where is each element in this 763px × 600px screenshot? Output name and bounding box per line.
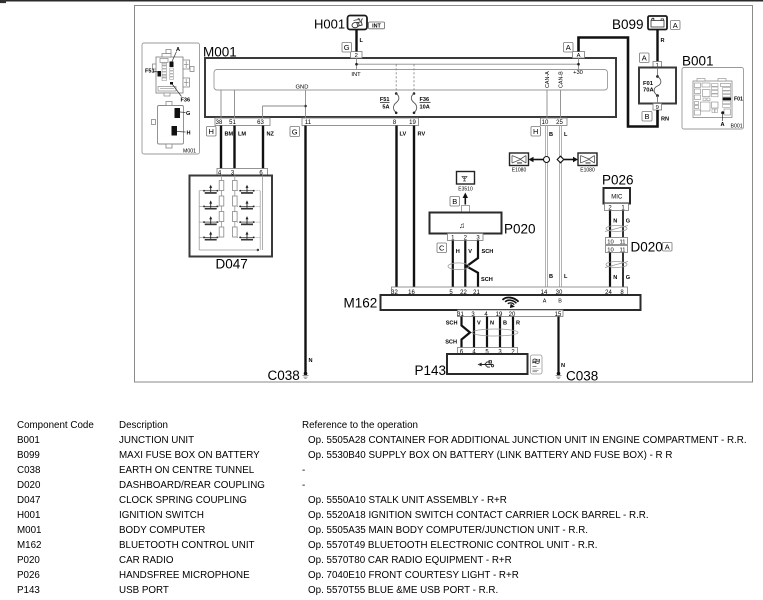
svg-text:H001: H001 <box>314 17 345 32</box>
svg-text:B001: B001 <box>731 124 743 130</box>
svg-text:B: B <box>644 112 649 121</box>
svg-text:E1080: E1080 <box>580 168 595 174</box>
earth C038 (right) <box>556 369 599 384</box>
svg-text:25: 25 <box>556 120 563 126</box>
wire V (M162 pin 3 to P143 pin 4) <box>474 317 481 348</box>
svg-text:LM: LM <box>238 132 246 138</box>
connector A label box (D020) <box>663 243 673 252</box>
svg-text:L: L <box>360 38 364 44</box>
svg-text:A: A <box>721 122 725 128</box>
wire B CAN (M001 pin 10 to M162 pin 14) <box>546 126 554 288</box>
svg-text:70A: 70A <box>643 88 654 94</box>
wire V (P020 pin 2 to M162 pin 22) <box>465 241 472 288</box>
svg-text:P143: P143 <box>415 363 447 378</box>
svg-text:A: A <box>543 299 547 305</box>
svg-text:N: N <box>490 321 494 327</box>
svg-text:B: B <box>452 197 457 206</box>
svg-text:11: 11 <box>619 240 625 246</box>
USB port P143 box <box>447 354 528 374</box>
svg-text:H: H <box>456 249 460 255</box>
earth C038 (left) <box>268 368 309 383</box>
clock spring D047 pin strip 4/3/6 <box>217 169 268 177</box>
svg-text:38: 38 <box>216 120 223 126</box>
M162 bottom pin strip <box>457 310 563 318</box>
svg-text:B099: B099 <box>612 17 644 32</box>
M001 pin strip 11/8/19 <box>302 118 419 126</box>
Blue&Me logo tag <box>531 355 543 374</box>
svg-text:MIC: MIC <box>611 195 623 201</box>
body computer M001 box <box>205 58 616 117</box>
svg-text:SCH: SCH <box>445 340 457 346</box>
fuse F36 10A <box>411 92 430 114</box>
bluetooth control unit M162 box <box>381 295 641 310</box>
ignition switch H001 icon <box>348 16 368 30</box>
svg-text:INT: INT <box>372 24 381 30</box>
svg-text:C038: C038 <box>268 368 300 383</box>
svg-text:G: G <box>186 111 190 117</box>
net INT/+30 bus wire <box>355 58 580 70</box>
wire LM (pin 51 to D047 pin 3) <box>235 126 247 169</box>
wire R (M162 pin 20 to P143 pin 2) <box>513 317 520 348</box>
wire GND from pin 38 <box>220 90 222 119</box>
INT tag box <box>369 22 385 30</box>
D047 internals <box>199 176 262 251</box>
pin 1 (fuse box) <box>653 62 662 69</box>
twisted pair symbol (lower) <box>605 262 628 268</box>
svg-text:A: A <box>642 54 647 63</box>
svg-text:H: H <box>187 131 191 137</box>
connector A label box (B099) <box>671 21 681 30</box>
svg-text:D020: D020 <box>631 240 663 255</box>
svg-text:A: A <box>566 43 571 52</box>
svg-text:F36: F36 <box>181 98 191 104</box>
splice node on wire L <box>557 156 564 163</box>
svg-text:63: 63 <box>257 120 264 126</box>
wire G (P026 pin 1 to D020) <box>623 211 630 238</box>
M001 pin strip 10/25 <box>541 118 568 126</box>
svg-text:INT: INT <box>351 72 361 78</box>
fuse F51 feed (dashed) <box>395 64 397 93</box>
svg-text:11: 11 <box>305 120 312 126</box>
inset M001 connector detail box <box>142 43 200 154</box>
connector A label box (M001 pin A) <box>564 43 574 53</box>
wire NZ (pin 63 to D047 pin 6) <box>263 126 275 169</box>
svg-text:N: N <box>613 219 617 225</box>
svg-text:P020: P020 <box>504 222 536 237</box>
connector G label box <box>290 127 300 137</box>
svg-text:D047: D047 <box>216 257 248 272</box>
inset B001 fuse F01 highlighted <box>723 97 744 103</box>
car radio P020 box <box>430 213 502 234</box>
M162 top pin strip <box>391 287 627 296</box>
svg-text:L: L <box>564 132 568 138</box>
inset B001 point A <box>721 111 725 128</box>
wire N (pin 11 to earth C038) <box>306 126 313 374</box>
P143 pin strip 6/4/5/3/2 <box>458 348 518 356</box>
wire BM (pin 38 to D047 pin 4) <box>221 126 234 169</box>
svg-text:NZ: NZ <box>267 132 275 138</box>
svg-text:CAN-A: CAN-A <box>545 71 551 88</box>
svg-text:P026: P026 <box>602 173 634 188</box>
inset label F51 with leader <box>145 69 158 75</box>
svg-text:R: R <box>516 321 520 327</box>
svg-text:+30: +30 <box>573 70 583 76</box>
svg-text:G: G <box>344 43 350 52</box>
wire GND to pin 11 <box>304 90 307 119</box>
M162 wireless icon <box>501 294 519 311</box>
connector G label box (H001) <box>342 43 352 53</box>
eyelet E1080 (left) <box>510 153 529 174</box>
M001 pin A (top) <box>573 52 585 60</box>
diagram frame <box>135 6 753 383</box>
twisted pair symbol (upper) <box>605 226 628 232</box>
shield twist ellipse (P020) <box>448 263 469 270</box>
svg-text:51: 51 <box>229 120 236 126</box>
connector B label box (fuse) <box>642 112 652 122</box>
M001 pin strip 38/51/63 <box>215 118 270 126</box>
svg-text:N: N <box>561 363 565 369</box>
svg-text:SCH: SCH <box>481 277 493 283</box>
fuse F36 feed (dashed) <box>413 64 415 93</box>
svg-text:N: N <box>613 275 617 281</box>
P020 aerial stub <box>462 206 470 213</box>
wire N (M162 pin 15 to earth C038) <box>559 317 566 374</box>
svg-text:B001: B001 <box>682 54 714 69</box>
wire SCH shielded (P020 pin 3 to M162 pin 21) <box>467 241 494 288</box>
svg-text:B: B <box>549 132 553 138</box>
svg-text:BM: BM <box>225 132 234 138</box>
wire GND branch to pin 63 <box>263 106 306 119</box>
inset B001 fuse layout drawing <box>693 79 732 118</box>
inset M001 top connector drawing <box>153 50 195 97</box>
aerial E3510 <box>457 172 475 193</box>
svg-text:A: A <box>665 243 670 252</box>
svg-text:RV: RV <box>418 132 426 138</box>
svg-text:SCH: SCH <box>446 321 458 327</box>
svg-text:B: B <box>503 321 507 327</box>
svg-text:LV: LV <box>400 132 407 138</box>
battery B099 icon <box>648 16 667 30</box>
wire N (M162 pin 4 to P143 pin 5) <box>487 317 494 348</box>
wire LV (pin 8 to M162 pin 32) <box>397 126 407 288</box>
top rule <box>0 0 763 2</box>
svg-text:C038: C038 <box>566 369 598 384</box>
svg-text:V: V <box>468 249 472 255</box>
inset label A with leader <box>172 47 180 62</box>
D047 wiper contacts <box>0 0 260 251</box>
svg-text:M001: M001 <box>183 149 196 155</box>
P020 pin strip 1/2/3 <box>448 234 484 242</box>
microphone P026 MIC box <box>604 188 631 204</box>
wire H (P020 pin 1 to M162 pin 5) <box>453 241 460 288</box>
clock spring coupling D047 box <box>190 176 273 257</box>
arrow P020 to E3510 <box>463 193 468 205</box>
connector H label box (right) <box>531 127 541 137</box>
svg-text:F01: F01 <box>643 81 654 87</box>
connector C label box (P020) <box>437 243 447 253</box>
svg-text:N: N <box>309 358 313 364</box>
inset label F36 with leader <box>173 85 191 104</box>
svg-text:R: R <box>661 38 665 44</box>
svg-text:2: 2 <box>355 53 358 59</box>
svg-text:10A: 10A <box>420 105 430 111</box>
svg-text:CAN-B: CAN-B <box>559 71 565 88</box>
svg-text:B: B <box>549 274 553 280</box>
wire L (H001 to M001 pin 2) <box>357 30 364 52</box>
svg-text:♫: ♫ <box>459 221 465 230</box>
M001 inner compartment <box>214 70 608 91</box>
wire B (M162 pin 19 to P143 pin 3) <box>500 317 507 348</box>
coupling D020 connector <box>606 238 628 254</box>
svg-text:V: V <box>477 321 481 327</box>
arrow to left E1080 <box>529 157 544 162</box>
svg-text:H: H <box>208 127 213 136</box>
svg-text:F51: F51 <box>145 69 155 75</box>
eyelet E1080 (right) <box>578 153 597 174</box>
maxi fuse F01 70A box <box>639 68 676 104</box>
fuse F51 5A <box>380 92 399 114</box>
svg-text:E1080: E1080 <box>512 168 527 174</box>
wire N (P026 pin 2 to D020) <box>610 211 617 238</box>
svg-text:L: L <box>564 274 568 280</box>
svg-text:B: B <box>558 299 562 305</box>
svg-text:F01: F01 <box>734 97 743 103</box>
wire G (D020 to M162 pin 8) <box>623 253 630 288</box>
wire R (B099 to F01) <box>658 30 665 62</box>
svg-text:A: A <box>577 53 581 59</box>
svg-text:G: G <box>626 219 630 225</box>
svg-text:H: H <box>533 127 538 136</box>
P026 pin strip 2/1 <box>605 204 629 212</box>
M001 pin 2 (top) <box>351 52 363 60</box>
svg-text:GND: GND <box>296 85 309 91</box>
svg-text:10: 10 <box>542 120 549 126</box>
svg-text:10: 10 <box>607 240 613 246</box>
svg-text:M162: M162 <box>344 296 378 311</box>
wire RN (F01 to M001 pin A) <box>579 38 670 127</box>
svg-text:RN: RN <box>661 117 669 123</box>
component table <box>17 420 94 431</box>
pin 9 (fuse box) <box>653 104 662 112</box>
wire GND from pin 51 <box>234 90 236 119</box>
svg-text:E3510: E3510 <box>458 187 473 193</box>
splice node on wire B <box>544 157 550 163</box>
wire L CAN (M001 pin 25 to M162 pin 30) <box>560 126 569 288</box>
connector B label box (P020) <box>450 197 460 207</box>
wire RV (pin 19 to M162 pin 16) <box>414 126 425 288</box>
svg-text:G: G <box>292 128 298 137</box>
svg-text:5A: 5A <box>382 105 389 111</box>
net CAN-B inside M001 <box>559 71 565 119</box>
inset M001 bottom connector drawing <box>152 102 191 149</box>
svg-text:SCH: SCH <box>482 249 494 255</box>
svg-text:C: C <box>439 244 445 253</box>
arrow to right E1080 <box>564 157 578 162</box>
wire N (D020 to M162 pin 24) <box>610 253 617 288</box>
connector H label box <box>207 127 217 137</box>
svg-text:G: G <box>626 275 630 281</box>
net CAN-A inside M001 <box>545 71 551 119</box>
svg-text:19: 19 <box>409 120 416 126</box>
connector A label box (fuse) <box>640 53 650 63</box>
shield twist ellipse (P143) <box>472 329 518 336</box>
svg-text:A: A <box>673 21 678 30</box>
inset B001 box <box>682 68 744 130</box>
wire SCH shielded (M162 pin 31 to P143 pin 6) <box>445 317 470 348</box>
